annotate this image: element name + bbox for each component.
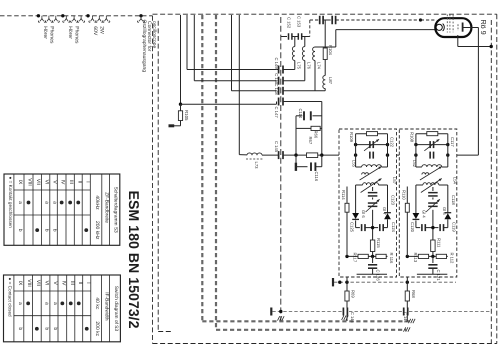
wire vertical to R105 bbox=[180, 15, 182, 104]
svg-text:R 112: R 112 bbox=[449, 253, 454, 265]
capacitor trimmer C122 bbox=[356, 139, 388, 151]
shielded cable 2 end hatching bbox=[404, 327, 411, 331]
svg-text:Connector for: Connector for bbox=[146, 21, 152, 52]
capacitor C116 bbox=[296, 155, 322, 171]
inductor L73 bbox=[246, 153, 279, 159]
svg-text:L55: L55 bbox=[352, 160, 357, 168]
resistor R117 bbox=[358, 254, 368, 258]
resistor R108 bbox=[416, 132, 448, 136]
svg-text:C123: C123 bbox=[391, 195, 396, 206]
capacitor top coupling 1 bbox=[320, 16, 331, 25]
oscilloscope connector terminal bbox=[137, 14, 144, 22]
svg-text:b: b bbox=[52, 229, 58, 232]
wire vertical to C148 line bbox=[232, 15, 277, 91]
svg-text:Hörer: Hörer bbox=[67, 26, 73, 39]
switch table Schalterdiagramm S3 bbox=[4, 174, 120, 245]
inner dashed border left second line bbox=[158, 21, 172, 332]
tube cathode/screen wire to border bbox=[458, 35, 493, 48]
shield screen line (dash-dot vertical) bbox=[280, 17, 282, 321]
svg-text:40kHz: 40kHz bbox=[94, 195, 100, 210]
svg-text:C118: C118 bbox=[451, 195, 456, 205]
label Hoerer Phones 1 bbox=[42, 26, 55, 44]
svg-text:R68: R68 bbox=[411, 290, 416, 298]
capacitor center fixed box 1 bbox=[368, 187, 378, 196]
ground rail box 2 bbox=[417, 273, 447, 275]
capacitor trimmer C117 bbox=[416, 139, 448, 151]
svg-text:200 kHz: 200 kHz bbox=[94, 221, 100, 240]
inductor L87 bbox=[323, 76, 325, 91]
svg-text:R113: R113 bbox=[413, 253, 418, 263]
svg-text:a: a bbox=[52, 302, 58, 305]
coupling coil box 1 bbox=[362, 173, 369, 175]
capacitor C153 bbox=[295, 33, 310, 40]
svg-text:C125: C125 bbox=[350, 222, 355, 233]
svg-text:b: b bbox=[52, 327, 58, 330]
svg-text:a: a bbox=[17, 201, 23, 204]
svg-text:L54: L54 bbox=[452, 177, 457, 185]
label Oszillographenausgang Connector for oscilloscope bbox=[141, 20, 157, 73]
svg-text:IV: IV bbox=[60, 281, 66, 286]
svg-text:a: a bbox=[17, 302, 23, 305]
svg-text:L76: L76 bbox=[306, 62, 311, 70]
svg-text:L87: L87 bbox=[328, 77, 333, 85]
svg-text:C 126: C 126 bbox=[376, 270, 381, 282]
coupling coil box 2 bbox=[422, 173, 429, 175]
screen line bottom hatch bbox=[278, 316, 285, 320]
svg-text:C 147: C 147 bbox=[274, 107, 279, 119]
svg-text:VI: VI bbox=[44, 180, 50, 185]
svg-text:L73: L73 bbox=[254, 162, 259, 170]
svg-text:a: a bbox=[44, 302, 50, 305]
svg-text:R 116: R 116 bbox=[389, 253, 394, 265]
svg-text:Switch diagram of S3: Switch diagram of S3 bbox=[113, 286, 119, 332]
wire vertical to L73 bbox=[239, 15, 247, 155]
svg-text:Gl 6: Gl 6 bbox=[361, 210, 366, 218]
svg-text:a: a bbox=[52, 201, 58, 204]
svg-text:Phones: Phones bbox=[73, 26, 79, 44]
node dot cap row box 1 bbox=[371, 226, 374, 229]
resistor R114 (center tap) bbox=[345, 187, 349, 257]
feedthrough capacitor C147 bbox=[277, 98, 322, 156]
capacitor trimmer C118 bbox=[426, 199, 440, 212]
AGC dashed wire bbox=[334, 281, 456, 284]
drawing title ESM 180 BN 15073/2 bbox=[125, 191, 141, 329]
cathode wire to tube bbox=[336, 29, 438, 31]
outer dashed border top bbox=[153, 13, 497, 15]
svg-text:Gl 4: Gl 4 bbox=[422, 210, 427, 218]
svg-text:40 kc: 40 kc bbox=[94, 297, 100, 309]
svg-text:R109: R109 bbox=[349, 132, 354, 143]
svg-text:C 145: C 145 bbox=[350, 312, 355, 323]
electron tube Ro9 envelope bbox=[435, 15, 471, 38]
inductor L75 bbox=[292, 37, 294, 70]
wire terminal strip dashed line bbox=[0, 15, 153, 17]
inductor L54 (secondary) bbox=[416, 183, 448, 185]
svg-text:C 149: C 149 bbox=[274, 58, 279, 70]
grid wire dashed to tube bbox=[336, 18, 437, 21]
svg-text:C114: C114 bbox=[298, 109, 303, 119]
svg-text:R111: R111 bbox=[436, 238, 441, 248]
outer dashed border left bbox=[152, 16, 154, 344]
label 60V 2W bbox=[92, 26, 105, 36]
capacitor C124 bbox=[373, 224, 388, 231]
feedthrough capacitor C148 bbox=[279, 87, 326, 95]
shielded cable 1 end hatching bbox=[409, 319, 416, 323]
resistor R110 (center tap) bbox=[405, 187, 409, 257]
resistor R104 bbox=[323, 20, 327, 76]
diode Gl 4 bbox=[413, 213, 420, 219]
resistor R69 bbox=[345, 291, 349, 308]
capacitor center fixed box 2 bbox=[428, 187, 438, 196]
wire center tap 1 down bbox=[346, 277, 348, 291]
svg-text:C120: C120 bbox=[410, 222, 415, 233]
wire R105 line to feedthrough C147 bbox=[181, 103, 277, 105]
svg-text:2W: 2W bbox=[99, 26, 105, 34]
svg-text:L57: L57 bbox=[392, 177, 397, 185]
svg-text:b: b bbox=[17, 327, 23, 330]
capacitor C 126 bbox=[368, 256, 377, 274]
inductor L76 bbox=[302, 37, 304, 81]
svg-text:R108: R108 bbox=[409, 132, 414, 143]
resistor R115 bbox=[370, 240, 374, 256]
svg-text:VIII: VIII bbox=[26, 279, 32, 287]
svg-text:VIII: VIII bbox=[27, 178, 33, 186]
svg-text:L75: L75 bbox=[296, 62, 301, 70]
node dot R105 bbox=[179, 103, 182, 106]
capacitor C125 bbox=[356, 224, 373, 231]
terminal jacks Hoerer/Phones group 2 bbox=[63, 16, 85, 22]
bottom row wire box 2 bbox=[406, 255, 448, 258]
svg-text:C122: C122 bbox=[390, 137, 395, 148]
resistor R111 bbox=[431, 240, 435, 256]
svg-text:R110: R110 bbox=[402, 190, 407, 200]
chassis bar C116 bbox=[295, 163, 297, 171]
svg-text:R115: R115 bbox=[376, 238, 381, 248]
outer dashed border bottom bbox=[153, 343, 497, 345]
svg-text:IV: IV bbox=[60, 180, 66, 185]
wire C152 row from screen bbox=[281, 36, 287, 38]
capacitor C120 bbox=[416, 224, 433, 231]
capacitor on main line in box 2 bbox=[430, 152, 433, 159]
tube anode output wire bbox=[464, 28, 479, 156]
secondary side verticals box 1 bbox=[356, 185, 388, 240]
capacitor C144 (feedthrough) bbox=[404, 308, 408, 322]
svg-text:Gl 5: Gl 5 bbox=[442, 207, 447, 215]
svg-text:C116: C116 bbox=[314, 172, 319, 182]
resistor R67 on main line bbox=[283, 153, 339, 158]
tuning arrow 2 box 1 bbox=[361, 179, 382, 193]
diode Gl 6 bbox=[352, 213, 359, 219]
svg-text:Hörer: Hörer bbox=[42, 26, 48, 39]
capacitor C143 (feedthrough) bbox=[343, 308, 347, 322]
svg-text:I: I bbox=[85, 282, 91, 283]
wire vertical to C150 line bbox=[194, 15, 276, 81]
tuning arrow 1 box 2 bbox=[420, 167, 442, 181]
grid feed dashed wire vertical bbox=[309, 20, 311, 37]
wires diodes to cap row box 2 bbox=[416, 219, 448, 227]
terminal jacks Hoerer/Phones group 1 bbox=[38, 16, 59, 22]
wire vertical to C149 line bbox=[187, 15, 276, 70]
feedthrough capacitor C150 bbox=[279, 77, 305, 85]
svg-text:C119: C119 bbox=[451, 222, 456, 232]
resistor R66 bbox=[296, 126, 322, 130]
resistor R 116 bbox=[376, 254, 386, 258]
ground (R105) bbox=[169, 124, 175, 127]
svg-text:C 152: C 152 bbox=[286, 17, 291, 29]
svg-text:IX: IX bbox=[17, 180, 23, 185]
wires verticals top section box 2 bbox=[416, 134, 448, 167]
svg-text:R114: R114 bbox=[341, 190, 346, 200]
node dots in box 2 bbox=[414, 143, 449, 157]
label Hoerer Phones 2 bbox=[67, 26, 80, 44]
main signal wire between boxes bbox=[397, 154, 400, 156]
svg-text:VII: VII bbox=[35, 179, 41, 185]
wire main line to anode vertical bbox=[457, 154, 479, 156]
svg-text:R104: R104 bbox=[328, 45, 333, 56]
svg-text:C124: C124 bbox=[391, 222, 396, 233]
svg-text:C 121: C 121 bbox=[436, 270, 441, 282]
node dots in box 1 bbox=[354, 143, 389, 157]
resistor R 112 bbox=[436, 254, 446, 258]
resistor R105 bbox=[172, 104, 183, 126]
svg-text:b: b bbox=[44, 327, 50, 330]
node dots main line bbox=[294, 153, 323, 156]
capacitor top coupling 2 bbox=[332, 16, 335, 25]
resistor R68 bbox=[405, 291, 409, 308]
inductor L55 bbox=[356, 165, 388, 167]
svg-text:VII: VII bbox=[35, 280, 41, 286]
svg-text:R69: R69 bbox=[351, 290, 356, 298]
node junction dots on terminal line bbox=[37, 14, 90, 17]
svg-text:L74: L74 bbox=[317, 62, 322, 70]
switch table Switch diagram of S3 bbox=[4, 275, 121, 342]
resistor R113 bbox=[418, 254, 428, 258]
svg-text:Schalterdiagramm S3: Schalterdiagramm S3 bbox=[113, 187, 119, 233]
diode Gl 5 bbox=[444, 213, 451, 220]
wires diodes to cap row box 1 bbox=[356, 219, 388, 227]
chassis bar AGC line bbox=[332, 278, 334, 286]
svg-text:b: b bbox=[44, 229, 50, 232]
capacitor C119 bbox=[433, 224, 448, 231]
svg-text:IF-Bandwidth: IF-Bandwidth bbox=[104, 292, 110, 321]
tuning arrow 1 box 1 bbox=[360, 167, 382, 181]
svg-text:C 145: C 145 bbox=[274, 141, 279, 153]
svg-text:● = Contact closed: ● = Contact closed bbox=[8, 278, 13, 318]
resistor R109 bbox=[356, 132, 388, 136]
svg-text:Rö 9: Rö 9 bbox=[479, 20, 488, 35]
inner dashed border right second line bbox=[490, 20, 492, 344]
svg-text:200 kc: 200 kc bbox=[94, 321, 100, 336]
wire center tap 2 down bbox=[406, 277, 408, 291]
svg-text:II: II bbox=[77, 282, 83, 285]
screened box 1 (dashed) bbox=[339, 129, 397, 277]
svg-text:a: a bbox=[44, 201, 50, 204]
svg-text:Phones: Phones bbox=[49, 26, 55, 44]
ground bus dashed wire bbox=[272, 310, 491, 313]
svg-text:L52: L52 bbox=[412, 160, 417, 168]
outer dashed border right bbox=[496, 14, 498, 343]
svg-text:ZF-Bandbreite: ZF-Bandbreite bbox=[104, 192, 110, 223]
svg-text:C117: C117 bbox=[450, 137, 455, 147]
svg-text:C 144: C 144 bbox=[403, 312, 408, 323]
svg-text:R105: R105 bbox=[184, 110, 189, 121]
grid wire dashed + coupling caps bbox=[310, 19, 318, 21]
shielded cable 2 (thick grey dashed) bbox=[216, 15, 406, 330]
svg-text:I: I bbox=[84, 181, 90, 182]
inductor L52 bbox=[416, 165, 448, 167]
wires verticals top section box 1 bbox=[356, 134, 388, 167]
svg-text:III: III bbox=[69, 281, 75, 285]
svg-text:C 148: C 148 bbox=[274, 83, 279, 95]
capacitor C 121 bbox=[428, 256, 437, 274]
terminal jacks 60V 2W group bbox=[89, 16, 110, 22]
bottom row wire box 1 bbox=[345, 255, 387, 258]
chassis bar ground bus bbox=[270, 308, 272, 316]
diode Gl 7 bbox=[384, 213, 391, 220]
svg-text:III: III bbox=[68, 180, 74, 184]
svg-text:VI: VI bbox=[44, 281, 50, 286]
svg-text:● = Kontakt geschlossen: ● = Kontakt geschlossen bbox=[8, 177, 13, 229]
node dot cap row box 2 bbox=[431, 226, 434, 229]
inductor L74 bbox=[313, 30, 336, 91]
tuning arrow 2 box 2 bbox=[421, 179, 442, 193]
shielded cable 1 (thick grey dashed) bbox=[202, 15, 411, 321]
feedthrough capacitor C149 bbox=[276, 66, 295, 74]
feedthrough capacitor C145 bbox=[279, 151, 283, 159]
svg-text:ESM 180 BN 15073/2: ESM 180 BN 15073/2 bbox=[125, 191, 141, 329]
svg-text:R67: R67 bbox=[308, 137, 313, 145]
svg-text:II: II bbox=[76, 181, 82, 184]
svg-text:Gl 7: Gl 7 bbox=[382, 207, 387, 215]
ground rail box 1 bbox=[357, 273, 387, 275]
svg-text:C 153: C 153 bbox=[297, 16, 302, 28]
inductor L57 (secondary) bbox=[356, 183, 388, 185]
svg-text:R66: R66 bbox=[314, 131, 319, 139]
screened box 2 (dashed) bbox=[399, 129, 457, 277]
capacitor C152 bbox=[289, 33, 295, 40]
capacitor trimmer C123 bbox=[366, 199, 380, 212]
capacitor on main line in box 1 bbox=[370, 152, 373, 159]
svg-text:Oszillographenausgang: Oszillographenausgang bbox=[141, 20, 147, 73]
svg-text:IX: IX bbox=[17, 281, 23, 286]
secondary side verticals box 2 bbox=[416, 185, 448, 240]
capacitor C114 bbox=[296, 111, 322, 155]
svg-text:60V: 60V bbox=[92, 26, 98, 36]
svg-text:b: b bbox=[17, 229, 23, 232]
hatch at C143 ground bbox=[342, 316, 349, 320]
svg-text:R117: R117 bbox=[353, 253, 358, 263]
